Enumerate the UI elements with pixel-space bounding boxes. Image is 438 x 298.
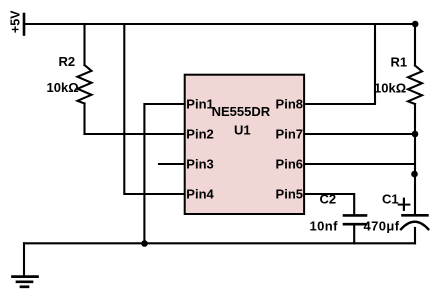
svg-text:Pin5: Pin5	[276, 186, 303, 201]
svg-text:10nf: 10nf	[310, 218, 339, 233]
svg-text:+5V: +5V	[9, 10, 23, 33]
svg-text:Pin2: Pin2	[186, 126, 213, 141]
svg-text:Pin3: Pin3	[186, 156, 213, 171]
svg-text:R1: R1	[391, 55, 408, 70]
svg-text:Pin8: Pin8	[276, 96, 303, 111]
svg-text:Pin4: Pin4	[186, 186, 214, 201]
svg-text:C2: C2	[320, 192, 337, 207]
svg-text:10kΩ: 10kΩ	[374, 81, 406, 96]
svg-text:Pin7: Pin7	[276, 126, 303, 141]
svg-text:C1: C1	[382, 192, 399, 207]
svg-text:Pin1: Pin1	[186, 96, 213, 111]
svg-text:470μf: 470μf	[364, 218, 400, 233]
svg-text:R2: R2	[59, 54, 76, 69]
svg-text:10kΩ: 10kΩ	[47, 80, 79, 95]
svg-text:U1: U1	[234, 122, 251, 137]
svg-text:Pin6: Pin6	[276, 156, 303, 171]
svg-text:NE555DR: NE555DR	[212, 104, 271, 119]
